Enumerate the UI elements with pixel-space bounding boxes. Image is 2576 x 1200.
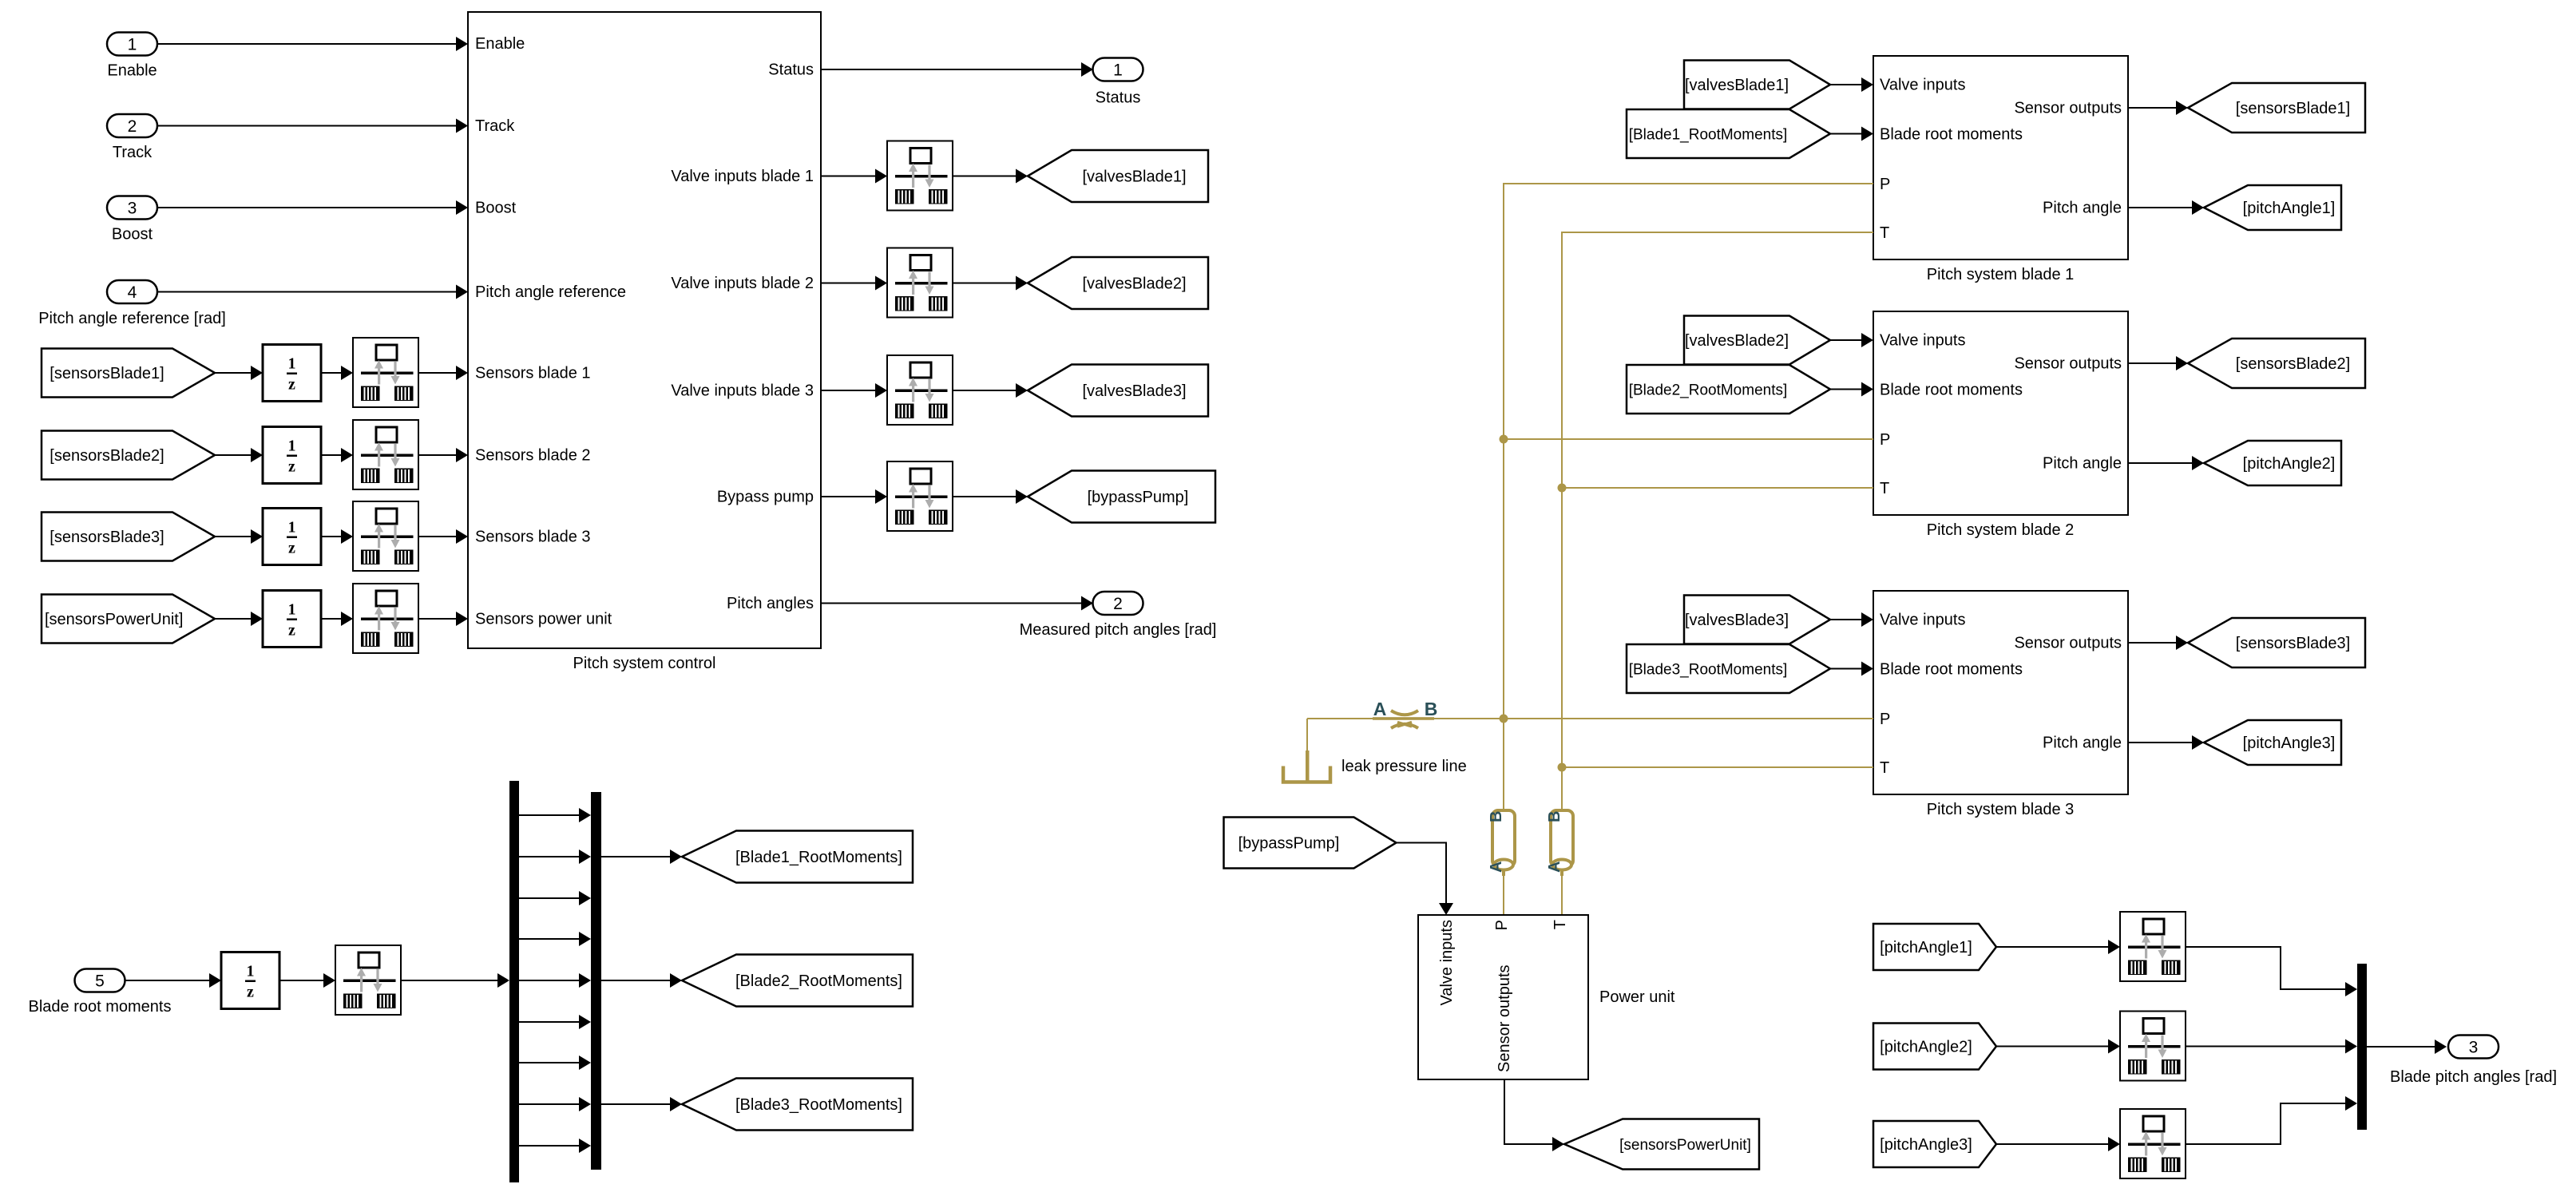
svg-text:Boost: Boost bbox=[112, 226, 153, 244]
goto tag [sensorsBlade3] bbox=[2188, 618, 2365, 667]
input port 1 Enable bbox=[107, 33, 157, 80]
svg-text:[valvesBlade3]: [valvesBlade3] bbox=[1685, 612, 1789, 629]
svg-text:Blade root moments: Blade root moments bbox=[29, 998, 172, 1016]
rate transition bbox=[887, 461, 953, 531]
wire bbox=[157, 37, 468, 51]
wire bbox=[953, 169, 1028, 184]
wire bbox=[157, 119, 468, 133]
svg-text:1: 1 bbox=[288, 601, 296, 619]
wire bbox=[953, 276, 1028, 291]
svg-text:Valve inputs: Valve inputs bbox=[1880, 77, 1965, 94]
wire bbox=[215, 448, 263, 462]
svg-text:leak pressure line: leak pressure line bbox=[1342, 758, 1467, 775]
wire bbox=[2367, 1040, 2447, 1054]
svg-text:[pitchAngle3]: [pitchAngle3] bbox=[2243, 735, 2336, 752]
output port 3 Blade pitch angles bbox=[2390, 1036, 2557, 1087]
wire bbox=[157, 200, 468, 215]
wire bbox=[601, 850, 682, 864]
svg-text:z: z bbox=[288, 458, 295, 476]
svg-text:Sensors blade 1: Sensors blade 1 bbox=[475, 365, 591, 382]
wire bbox=[601, 973, 682, 988]
from tag [pitchAngle3] bbox=[1873, 1121, 1996, 1167]
unit delay 1/z bbox=[221, 952, 279, 1009]
wire bbox=[321, 529, 353, 544]
hydraulic wire P line to blade3 bbox=[1307, 718, 1873, 719]
svg-text:Pitch system blade 3: Pitch system blade 3 bbox=[1927, 801, 2075, 818]
rate transition bbox=[2120, 1012, 2186, 1081]
svg-text:Power unit: Power unit bbox=[1599, 988, 1675, 1006]
wire bbox=[2186, 947, 2357, 996]
svg-text:Pitch angles: Pitch angles bbox=[727, 595, 814, 612]
rate transition bbox=[335, 945, 401, 1015]
subsystem block Pitch system blade 1 bbox=[1873, 56, 2128, 283]
svg-text:1: 1 bbox=[288, 438, 296, 455]
svg-text:P: P bbox=[1880, 431, 1890, 449]
svg-text:3: 3 bbox=[2469, 1039, 2479, 1057]
wire bbox=[418, 529, 468, 544]
wire bbox=[1996, 940, 2120, 954]
svg-text:[sensorsBlade3]: [sensorsBlade3] bbox=[2236, 635, 2350, 652]
demux bbox=[509, 781, 519, 1182]
wire bbox=[1830, 127, 1873, 141]
svg-text:T: T bbox=[1880, 759, 1889, 777]
rate transition bbox=[2120, 912, 2186, 981]
subsystem block Power unit bbox=[1418, 915, 1675, 1079]
svg-text:Pitch system blade 2: Pitch system blade 2 bbox=[1927, 521, 2075, 539]
from tag [bypassPump] bbox=[1224, 818, 1397, 869]
goto tag [valvesBlade3] bbox=[1028, 365, 1208, 417]
svg-text:z: z bbox=[288, 622, 295, 640]
svg-text:Sensors blade 3: Sensors blade 3 bbox=[475, 529, 591, 546]
hydraulic pipe A-B bbox=[1488, 810, 1515, 876]
unit delay 1/z bbox=[263, 591, 321, 648]
from tag [Blade3_RootMoments] bbox=[1627, 644, 1830, 693]
rate transition bbox=[353, 584, 418, 653]
hydraulic wire bbox=[1561, 872, 1563, 915]
svg-text:Pitch system control: Pitch system control bbox=[573, 655, 716, 672]
svg-text:P: P bbox=[1880, 711, 1890, 728]
wire bbox=[519, 1139, 591, 1153]
svg-text:Blade pitch angles [rad]: Blade pitch angles [rad] bbox=[2390, 1068, 2557, 1086]
svg-text:[Blade1_RootMoments]: [Blade1_RootMoments] bbox=[735, 849, 902, 866]
svg-text:A: A bbox=[1546, 861, 1563, 873]
svg-text:Pitch angle: Pitch angle bbox=[2043, 735, 2122, 752]
svg-text:Sensor outputs: Sensor outputs bbox=[1496, 964, 1513, 1072]
wire bbox=[2128, 456, 2204, 470]
svg-text:4: 4 bbox=[128, 283, 137, 302]
svg-text:T: T bbox=[1880, 224, 1889, 242]
svg-text:z: z bbox=[288, 540, 295, 557]
svg-text:Blade root moments: Blade root moments bbox=[1880, 661, 2023, 679]
wire bbox=[821, 383, 887, 398]
wire bbox=[215, 529, 263, 544]
wire bbox=[2128, 200, 2204, 215]
from tag [sensorsPowerUnit] bbox=[42, 595, 215, 644]
svg-text:[sensorsBlade2]: [sensorsBlade2] bbox=[50, 447, 164, 465]
svg-text:Blade root moments: Blade root moments bbox=[1880, 126, 2023, 144]
rate transition bbox=[2120, 1109, 2186, 1178]
svg-text:Pitch angle: Pitch angle bbox=[2043, 200, 2122, 217]
svg-text:5: 5 bbox=[95, 972, 105, 991]
svg-text:[valvesBlade3]: [valvesBlade3] bbox=[1082, 382, 1186, 400]
from tag [valvesBlade1] bbox=[1684, 61, 1830, 109]
svg-text:P: P bbox=[1880, 176, 1890, 193]
hydraulic wire leak branch bbox=[1306, 719, 1308, 751]
svg-text:T: T bbox=[1552, 920, 1569, 929]
wire bbox=[2128, 636, 2188, 650]
svg-text:Sensor outputs: Sensor outputs bbox=[2014, 355, 2122, 373]
wire bbox=[1830, 333, 1873, 347]
wire bbox=[821, 489, 887, 504]
wire bbox=[418, 448, 468, 462]
rate transition bbox=[887, 355, 953, 425]
svg-text:[sensorsBlade3]: [sensorsBlade3] bbox=[50, 529, 164, 546]
wire bbox=[215, 366, 263, 380]
svg-text:Valve inputs: Valve inputs bbox=[1880, 612, 1965, 629]
wire bbox=[519, 932, 591, 946]
goto tag [Blade2_RootMoments] bbox=[682, 955, 913, 1007]
svg-text:A: A bbox=[1488, 861, 1505, 873]
from tag [Blade1_RootMoments] bbox=[1627, 109, 1830, 158]
svg-text:Enable: Enable bbox=[475, 35, 525, 53]
rate transition bbox=[353, 338, 418, 407]
svg-text:[pitchAngle2]: [pitchAngle2] bbox=[2243, 455, 2336, 473]
svg-text:T: T bbox=[1880, 480, 1889, 497]
wire bbox=[321, 448, 353, 462]
wire bbox=[215, 612, 263, 626]
svg-text:[Blade3_RootMoments]: [Blade3_RootMoments] bbox=[1629, 662, 1788, 679]
from tag [Blade2_RootMoments] bbox=[1627, 365, 1830, 414]
svg-text:A: A bbox=[1373, 699, 1387, 719]
wire bbox=[401, 973, 509, 988]
svg-text:1: 1 bbox=[288, 519, 296, 537]
wire bbox=[519, 808, 591, 822]
rate transition bbox=[353, 501, 418, 571]
wire bbox=[1397, 843, 1453, 916]
unit delay 1/z bbox=[263, 345, 321, 402]
unit delay 1/z bbox=[263, 509, 321, 565]
goto tag [Blade1_RootMoments] bbox=[682, 831, 913, 883]
svg-text:[sensorsPowerUnit]: [sensorsPowerUnit] bbox=[45, 611, 183, 628]
output port 1 Status bbox=[1093, 58, 1143, 107]
svg-text:Status: Status bbox=[768, 61, 814, 79]
wire bbox=[418, 366, 468, 380]
hydraulic wire T line blade1 bbox=[1562, 232, 1873, 810]
svg-text:Valve inputs blade 3: Valve inputs blade 3 bbox=[671, 382, 814, 400]
svg-text:Sensor outputs: Sensor outputs bbox=[2014, 100, 2122, 117]
goto tag [sensorsBlade2] bbox=[2188, 339, 2365, 388]
goto tag [pitchAngle3] bbox=[2204, 720, 2341, 765]
svg-text:P: P bbox=[1493, 920, 1511, 930]
from tag [pitchAngle2] bbox=[1873, 1024, 1996, 1070]
svg-text:[sensorsBlade1]: [sensorsBlade1] bbox=[50, 365, 164, 382]
wire bbox=[519, 1097, 591, 1111]
goto tag [sensorsBlade1] bbox=[2188, 83, 2365, 133]
svg-text:[valvesBlade1]: [valvesBlade1] bbox=[1685, 77, 1789, 94]
wire bbox=[1830, 612, 1873, 627]
svg-text:Track: Track bbox=[113, 144, 153, 161]
wire bbox=[519, 973, 591, 988]
svg-text:Track: Track bbox=[475, 117, 515, 135]
rate transition bbox=[887, 141, 953, 211]
hydraulic wire T line to blade3 bbox=[1562, 766, 1873, 768]
svg-text:[Blade2_RootMoments]: [Blade2_RootMoments] bbox=[735, 972, 902, 990]
subsystem block Pitch system control bbox=[468, 12, 821, 672]
input port 5 Blade root moments bbox=[29, 969, 172, 1016]
svg-text:Sensors blade 2: Sensors blade 2 bbox=[475, 447, 591, 465]
svg-text:Pitch angle reference: Pitch angle reference bbox=[475, 283, 626, 301]
svg-text:[sensorsBlade1]: [sensorsBlade1] bbox=[2236, 100, 2350, 117]
svg-text:Valve inputs blade 1: Valve inputs blade 1 bbox=[671, 168, 814, 185]
wire bbox=[1996, 1137, 2120, 1151]
goto tag [valvesBlade1] bbox=[1028, 150, 1208, 202]
from tag [valvesBlade3] bbox=[1684, 596, 1830, 644]
svg-text:B: B bbox=[1488, 811, 1505, 822]
svg-text:z: z bbox=[247, 984, 254, 1001]
svg-text:z: z bbox=[288, 376, 295, 394]
unit delay 1/z bbox=[263, 427, 321, 484]
svg-text:B: B bbox=[1546, 811, 1563, 822]
wire bbox=[1830, 77, 1873, 92]
goto tag [valvesBlade2] bbox=[1028, 257, 1208, 309]
svg-text:[pitchAngle3]: [pitchAngle3] bbox=[1880, 1136, 1972, 1154]
svg-text:[valvesBlade2]: [valvesBlade2] bbox=[1082, 275, 1186, 293]
svg-text:[pitchAngle1]: [pitchAngle1] bbox=[1880, 939, 1972, 956]
input port 2 Track bbox=[107, 114, 157, 161]
goto tag [pitchAngle2] bbox=[2204, 441, 2341, 485]
svg-text:[sensorsBlade2]: [sensorsBlade2] bbox=[2236, 355, 2350, 373]
wire sensor outputs bbox=[1504, 1079, 1564, 1151]
wire bbox=[953, 383, 1028, 398]
svg-text:B: B bbox=[1425, 699, 1438, 719]
wire bbox=[1996, 1040, 2120, 1054]
from tag [sensorsBlade1] bbox=[42, 349, 215, 398]
wire bbox=[157, 285, 468, 299]
wire bbox=[2128, 356, 2188, 370]
svg-text:[bypassPump]: [bypassPump] bbox=[1088, 489, 1189, 506]
wire bbox=[279, 973, 335, 988]
wire bbox=[601, 1097, 682, 1111]
goto tag [sensorsPowerUnit] bbox=[1564, 1119, 1759, 1170]
leak tank symbol bbox=[1283, 750, 1330, 782]
input port 4 Pitch angle reference [rad] bbox=[38, 280, 226, 327]
wire bbox=[2128, 101, 2188, 115]
wire bbox=[321, 366, 353, 380]
from tag [pitchAngle1] bbox=[1873, 924, 1996, 970]
junction bbox=[1500, 715, 1508, 723]
svg-text:Valve inputs: Valve inputs bbox=[1438, 920, 1456, 1005]
junction bbox=[1558, 763, 1567, 772]
svg-text:1: 1 bbox=[288, 355, 296, 373]
svg-text:[pitchAngle1]: [pitchAngle1] bbox=[2243, 200, 2336, 217]
svg-text:Sensor outputs: Sensor outputs bbox=[2014, 635, 2122, 652]
svg-text:[Blade1_RootMoments]: [Blade1_RootMoments] bbox=[1629, 127, 1788, 144]
svg-text:Enable: Enable bbox=[107, 62, 157, 80]
wire bbox=[321, 612, 353, 626]
from tag [sensorsBlade3] bbox=[42, 513, 215, 561]
wire bbox=[2186, 1040, 2357, 1054]
svg-text:[valvesBlade1]: [valvesBlade1] bbox=[1082, 168, 1186, 186]
output port 2 Measured pitch angles bbox=[1020, 592, 1217, 639]
svg-text:Bypass pump: Bypass pump bbox=[717, 489, 814, 506]
rate transition bbox=[353, 420, 418, 489]
wire bbox=[821, 596, 1093, 611]
goto tag [Blade3_RootMoments] bbox=[682, 1079, 913, 1131]
wire bbox=[2186, 1096, 2357, 1144]
wire bbox=[519, 1055, 591, 1070]
svg-text:3: 3 bbox=[128, 200, 137, 218]
hydraulic wire bbox=[1503, 872, 1504, 915]
goto tag [pitchAngle1] bbox=[2204, 185, 2341, 230]
hydraulic pipe A-B bbox=[1546, 810, 1573, 876]
svg-text:[Blade3_RootMoments]: [Blade3_RootMoments] bbox=[735, 1096, 902, 1114]
svg-text:Valve inputs: Valve inputs bbox=[1880, 332, 1965, 350]
from tag [valvesBlade2] bbox=[1684, 316, 1830, 365]
valve restriction A-B symbol bbox=[1373, 699, 1437, 728]
svg-text:Boost: Boost bbox=[475, 200, 517, 217]
svg-text:Measured pitch angles [rad]: Measured pitch angles [rad] bbox=[1020, 621, 1217, 639]
label leak pressure line bbox=[1342, 758, 1467, 775]
svg-text:[bypassPump]: [bypassPump] bbox=[1238, 835, 1340, 853]
svg-text:[sensorsPowerUnit]: [sensorsPowerUnit] bbox=[1619, 1137, 1751, 1154]
svg-text:Valve inputs blade 2: Valve inputs blade 2 bbox=[671, 275, 814, 292]
hydraulic wire P line to blade2 bbox=[1504, 438, 1873, 440]
from tag [sensorsBlade2] bbox=[42, 431, 215, 480]
svg-text:Blade root moments: Blade root moments bbox=[1880, 382, 2023, 399]
subsystem block Pitch system blade 3 bbox=[1873, 591, 2128, 818]
wire bbox=[821, 62, 1093, 77]
subsystem block Pitch system blade 2 bbox=[1873, 311, 2128, 539]
svg-text:Sensors power unit: Sensors power unit bbox=[475, 611, 612, 628]
hydraulic wire P line blade1 bbox=[1504, 184, 1873, 810]
svg-text:[Blade2_RootMoments]: [Blade2_RootMoments] bbox=[1629, 382, 1788, 399]
input port 3 Boost bbox=[107, 196, 157, 244]
svg-text:2: 2 bbox=[128, 117, 137, 136]
wire bbox=[821, 169, 887, 184]
svg-text:[pitchAngle2]: [pitchAngle2] bbox=[1880, 1039, 1972, 1056]
wire bbox=[519, 850, 591, 864]
svg-text:2: 2 bbox=[1113, 595, 1123, 613]
svg-text:Pitch system blade 1: Pitch system blade 1 bbox=[1927, 266, 2075, 283]
rate transition bbox=[887, 248, 953, 318]
svg-text:Pitch angle: Pitch angle bbox=[2043, 455, 2122, 473]
wire bbox=[1830, 382, 1873, 397]
wire bbox=[953, 489, 1028, 504]
svg-text:Pitch angle reference [rad]: Pitch angle reference [rad] bbox=[38, 310, 226, 327]
svg-text:1: 1 bbox=[128, 36, 137, 54]
wire bbox=[821, 276, 887, 291]
wire bbox=[2128, 735, 2204, 750]
hydraulic wire T line to blade2 bbox=[1562, 487, 1873, 489]
svg-text:[valvesBlade2]: [valvesBlade2] bbox=[1685, 332, 1789, 350]
junction bbox=[1558, 484, 1567, 493]
wire bbox=[125, 973, 221, 988]
wire bbox=[1830, 662, 1873, 676]
mux bbox=[2357, 964, 2367, 1130]
mux bbox=[591, 792, 601, 1170]
wire bbox=[519, 1015, 591, 1029]
svg-text:1: 1 bbox=[1113, 61, 1123, 80]
wire bbox=[519, 891, 591, 905]
svg-text:Status: Status bbox=[1096, 89, 1141, 107]
junction bbox=[1500, 435, 1508, 444]
goto tag [bypassPump] bbox=[1028, 471, 1215, 523]
svg-text:1: 1 bbox=[247, 963, 255, 980]
wire bbox=[418, 612, 468, 626]
